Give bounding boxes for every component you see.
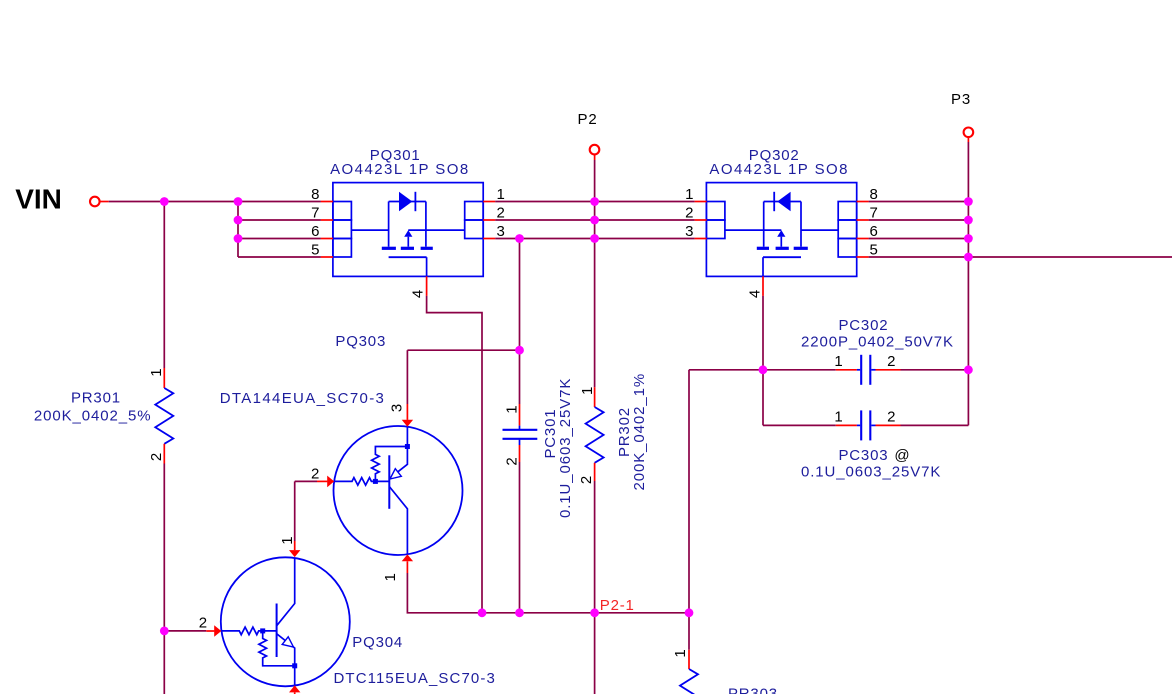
svg-text:2200P_0402_50V7K: 2200P_0402_50V7K bbox=[801, 334, 954, 351]
svg-text:3: 3 bbox=[497, 223, 505, 240]
svg-text:1: 1 bbox=[834, 409, 842, 426]
svg-text:0.1U_0603_25V7K: 0.1U_0603_25V7K bbox=[801, 463, 941, 480]
svg-text:4: 4 bbox=[410, 290, 427, 298]
svg-text:1: 1 bbox=[382, 573, 399, 581]
svg-text:3: 3 bbox=[388, 404, 405, 412]
svg-text:1: 1 bbox=[672, 649, 689, 657]
svg-text:DTC115EUA_SC70-3: DTC115EUA_SC70-3 bbox=[334, 670, 496, 687]
svg-text:PR301: PR301 bbox=[71, 389, 121, 406]
svg-text:200K_0402_1%: 200K_0402_1% bbox=[631, 373, 648, 491]
svg-text:4: 4 bbox=[746, 290, 763, 298]
svg-text:@: @ bbox=[894, 447, 909, 464]
svg-text:2: 2 bbox=[148, 453, 165, 461]
svg-text:1: 1 bbox=[579, 387, 596, 395]
svg-text:2: 2 bbox=[578, 476, 595, 484]
svg-text:2: 2 bbox=[199, 615, 207, 632]
svg-text:6: 6 bbox=[870, 223, 878, 240]
svg-text:DTA144EUA_SC70-3: DTA144EUA_SC70-3 bbox=[220, 390, 386, 407]
svg-text:5: 5 bbox=[870, 242, 878, 259]
svg-text:PC303: PC303 bbox=[839, 447, 889, 464]
svg-text:P3: P3 bbox=[951, 91, 971, 108]
svg-text:2: 2 bbox=[504, 457, 521, 465]
svg-text:P2-1: P2-1 bbox=[600, 597, 635, 614]
svg-text:2: 2 bbox=[311, 466, 319, 483]
svg-text:PQ304: PQ304 bbox=[352, 634, 403, 651]
svg-text:PR303: PR303 bbox=[728, 685, 778, 694]
svg-text:1: 1 bbox=[497, 186, 505, 203]
svg-text:8: 8 bbox=[870, 186, 878, 203]
svg-text:1: 1 bbox=[279, 536, 296, 544]
svg-text:1: 1 bbox=[834, 353, 842, 370]
svg-text:2: 2 bbox=[887, 353, 895, 370]
svg-text:1: 1 bbox=[148, 368, 165, 376]
svg-text:7: 7 bbox=[870, 205, 878, 222]
svg-text:2: 2 bbox=[685, 205, 693, 222]
svg-text:2: 2 bbox=[497, 205, 505, 222]
svg-text:0.1U_0603_25V7K: 0.1U_0603_25V7K bbox=[557, 378, 574, 518]
svg-text:PC302: PC302 bbox=[839, 317, 889, 334]
svg-text:AO4423L 1P SO8: AO4423L 1P SO8 bbox=[330, 161, 470, 178]
svg-text:6: 6 bbox=[311, 223, 319, 240]
svg-text:AO4423L 1P SO8: AO4423L 1P SO8 bbox=[709, 161, 849, 178]
svg-text:2: 2 bbox=[887, 409, 895, 426]
svg-text:VIN: VIN bbox=[15, 184, 62, 215]
svg-text:1: 1 bbox=[685, 186, 693, 203]
svg-text:5: 5 bbox=[311, 242, 319, 259]
svg-text:8: 8 bbox=[311, 186, 319, 203]
svg-text:P2: P2 bbox=[578, 111, 598, 128]
svg-text:PQ303: PQ303 bbox=[335, 333, 386, 350]
svg-text:7: 7 bbox=[311, 205, 319, 222]
svg-text:200K_0402_5%: 200K_0402_5% bbox=[34, 407, 152, 424]
svg-text:3: 3 bbox=[685, 223, 693, 240]
svg-text:1: 1 bbox=[504, 405, 521, 413]
